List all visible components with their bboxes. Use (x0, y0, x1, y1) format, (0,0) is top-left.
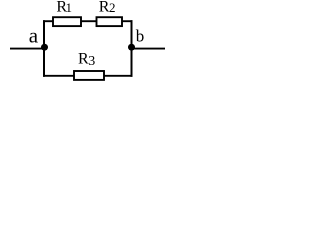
wire: right vertical branch (131, 20, 133, 77)
wire: between R1 and R2 (81, 20, 97, 22)
resistor R1 (53, 17, 81, 26)
svg-text:a: a (29, 24, 39, 48)
wire: bottom branch into R3 (43, 75, 74, 77)
wire: left lead from terminal a (10, 48, 44, 50)
background (0, 0, 174, 83)
wire: R3 to right corner (104, 75, 133, 77)
wire: R2 to right corner (122, 20, 133, 22)
wire: right lead to terminal b (132, 48, 166, 50)
resistor R3 (74, 71, 104, 80)
wire: top branch into R1 (43, 20, 53, 22)
svg-text:b: b (136, 26, 145, 45)
wire: left vertical branch (43, 20, 45, 77)
svg-text:2: 2 (109, 0, 116, 15)
svg-text:3: 3 (88, 54, 95, 69)
svg-text:1: 1 (66, 0, 73, 15)
node b (128, 44, 135, 51)
node a (41, 44, 48, 51)
resistor R2 (97, 17, 123, 26)
